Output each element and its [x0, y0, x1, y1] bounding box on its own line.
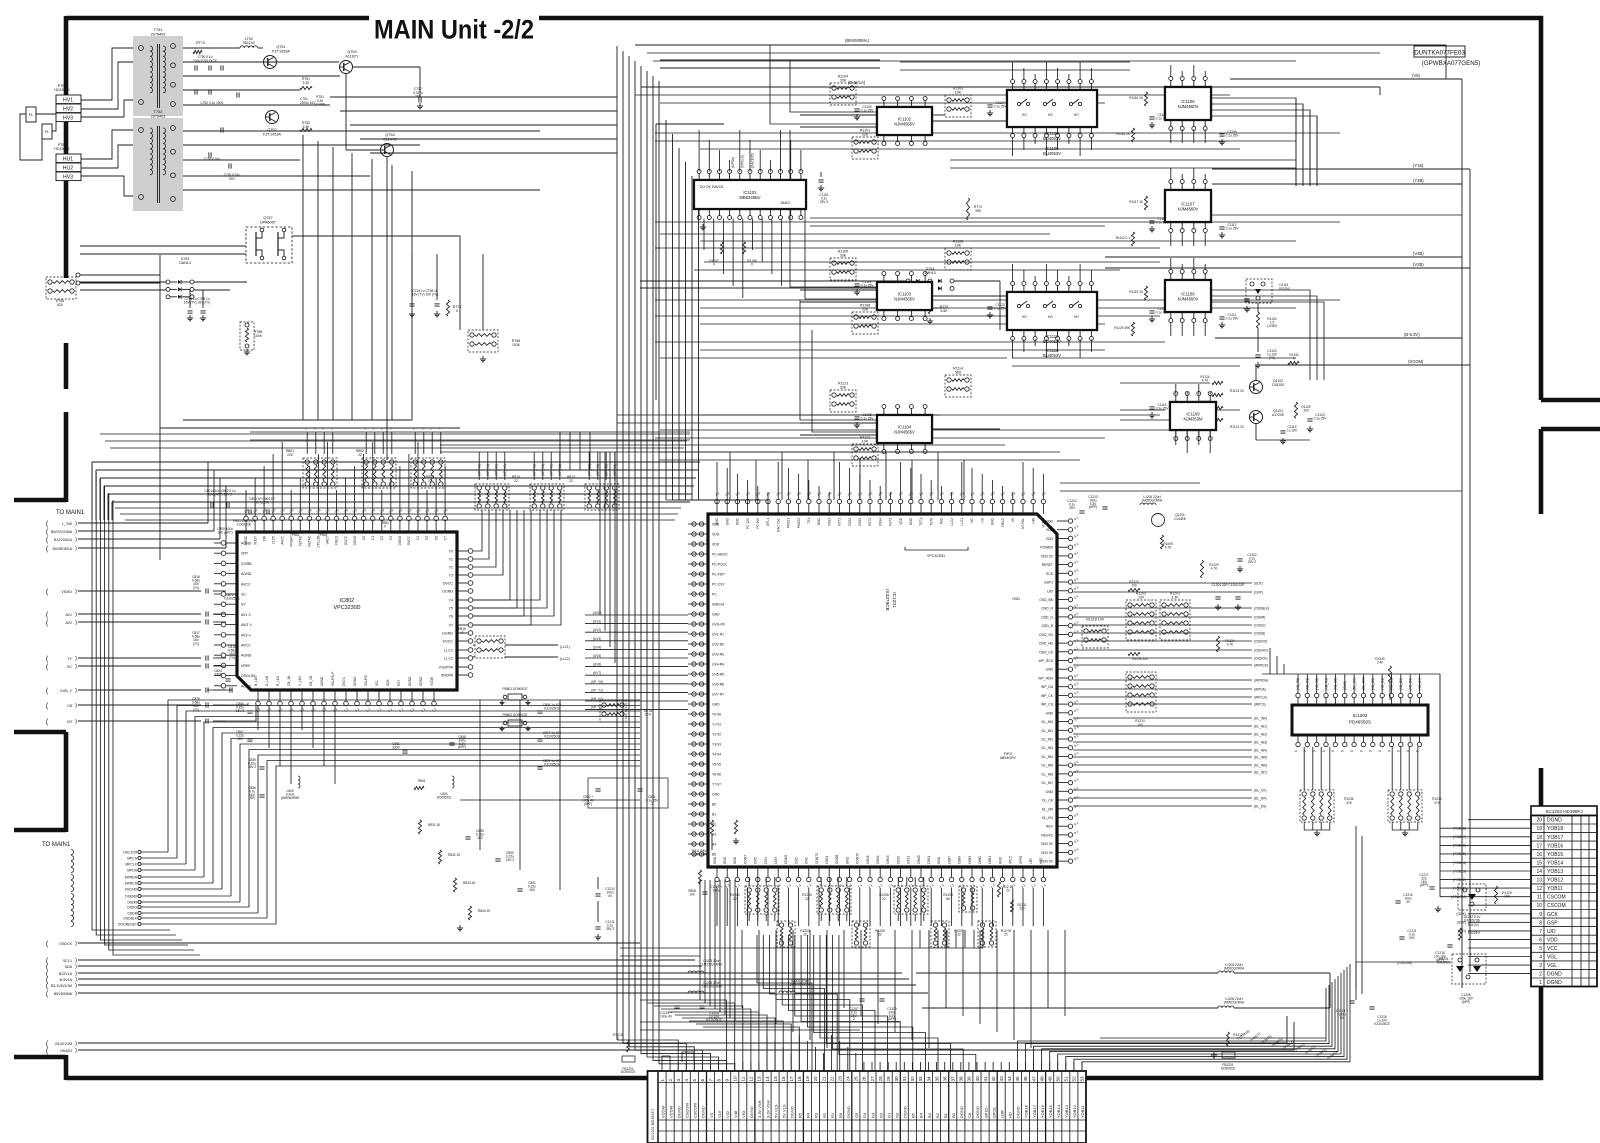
svg-text:GND: GND [1045, 711, 1053, 715]
svg-text:DGND: DGND [353, 676, 357, 686]
svg-text:Y7: Y7 [449, 624, 453, 628]
svg-text:R1112 0.1: R1112 0.1 [1116, 236, 1130, 240]
svg-text:YOB11: YOB11 [1547, 886, 1563, 892]
svg-text:40: 40 [975, 1076, 980, 1082]
svg-text:HO: HO [1022, 113, 1027, 117]
svg-text:16V (TV) 16V (TV): 16V (TV) 16V (TV) [184, 301, 210, 305]
svg-text:B3: B3 [927, 1112, 932, 1118]
svg-text:R4: R4 [806, 1112, 811, 1118]
svg-text:33: 33 [918, 1076, 923, 1082]
svg-text:FZT1053A: FZT1053A [263, 132, 281, 136]
svg-text:UV4-R4: UV4-R4 [712, 663, 724, 667]
svg-text:GND: GND [715, 517, 719, 525]
svg-text:(UV1): (UV1) [593, 620, 601, 624]
svg-text:DVCC: DVCC [407, 535, 411, 545]
svg-text:R1218 100: R1218 100 [1086, 618, 1104, 622]
svg-text:DO900CE: DO900CE [1221, 1066, 1236, 1070]
svg-text:VDD: VDD [899, 517, 903, 524]
svg-text:14: 14 [765, 1076, 770, 1082]
svg-text:OSDG: OSDG [127, 906, 137, 910]
svg-text:): ) [75, 719, 77, 725]
svg-text:R1228 0: R1228 0 [1468, 931, 1480, 935]
svg-text:HS: HS [980, 518, 984, 522]
svg-text:B14V1OM: B14V1OM [55, 1042, 72, 1046]
svg-text:VDD 5V: VDD 5V [1041, 554, 1054, 558]
svg-text:UV1-R1: UV1-R1 [712, 633, 724, 637]
svg-text:5.6K: 5.6K [941, 309, 949, 313]
svg-text:(B-9V1A): (B-9V1A) [848, 80, 866, 85]
svg-text:PD46550S: PD46550S [1349, 719, 1371, 724]
svg-text:Y2-92: Y2-92 [712, 733, 721, 737]
svg-text:DGND: DGND [846, 1106, 851, 1118]
svg-text:UV2-R2: UV2-R2 [712, 643, 724, 647]
svg-text:WP_DA: WP_DA [1041, 685, 1054, 689]
svg-text:R861: R861 [418, 779, 426, 783]
svg-text:CPLL38: CPLL38 [317, 536, 321, 548]
svg-text:AVCC: AVCC [280, 535, 284, 544]
svg-text:SC: SC [67, 665, 72, 669]
svg-text:C8M4: C8M4 [876, 855, 880, 864]
svg-text:): ) [75, 589, 77, 595]
svg-text:100: 100 [1303, 408, 1309, 412]
svg-text:9: 9 [1539, 912, 1542, 918]
svg-text:3: 3 [676, 1078, 681, 1081]
svg-text:(UV2): (UV2) [593, 628, 601, 632]
svg-text:VST2: VST2 [868, 518, 872, 526]
svg-text:16: 16 [1536, 852, 1542, 858]
svg-text:C8B2: C8B2 [978, 856, 982, 864]
svg-text:DGND: DGND [442, 590, 453, 594]
svg-text:COM2: COM2 [784, 855, 788, 864]
svg-text:DL_IN4: DL_IN4 [1042, 755, 1054, 759]
svg-text:(VP_Y3): (VP_Y3) [591, 706, 603, 710]
svg-text:WP_CK: WP_CK [1041, 694, 1054, 698]
svg-text:22: 22 [882, 897, 886, 901]
svg-text:DAN13: DAN13 [179, 261, 191, 265]
svg-text:GND: GND [909, 517, 913, 525]
svg-text:SCL: SCL [375, 680, 379, 686]
svg-text:VDD 5V: VDD 5V [1041, 842, 1054, 846]
svg-text:B4: B4 [919, 1112, 924, 1118]
svg-text:(SCOM): (SCOM) [1408, 359, 1424, 364]
svg-text:): ) [75, 521, 77, 527]
svg-text:OSD_BK: OSD_BK [1039, 598, 1053, 602]
svg-text:32: 32 [910, 1076, 915, 1082]
svg-text:DOORESET: DOORESET [118, 923, 137, 927]
svg-text:Y1: Y1 [449, 558, 453, 562]
svg-text:DGND: DGND [676, 1106, 681, 1118]
svg-text:47K: 47K [1346, 801, 1353, 805]
svg-text:4: 4 [1539, 955, 1542, 961]
svg-text:KZ1025CE: KZ1025CE [544, 734, 560, 738]
svg-text:(M05OU2R9H: (M05OU2R9H [1142, 499, 1163, 503]
svg-text:31: 31 [902, 1076, 907, 1082]
svg-text:(SCK): (SCK) [1254, 581, 1263, 585]
svg-text:7: 7 [1539, 929, 1542, 935]
svg-text:YOB17: YOB17 [1547, 835, 1563, 841]
svg-text:(WPRCS): (WPRCS) [1254, 663, 1268, 667]
svg-text:C8B4: C8B4 [958, 856, 962, 864]
svg-text:5V VLS: 5V VLS [773, 1104, 778, 1118]
svg-text:21: 21 [821, 1076, 826, 1082]
svg-text:(OSDG): (OSDG) [1254, 623, 1266, 627]
svg-text:R1119 1K: R1119 1K [1129, 290, 1144, 294]
svg-text:V0: V0 [709, 1112, 714, 1118]
svg-text:0: 0 [384, 525, 386, 529]
svg-text:TST1: TST1 [919, 518, 923, 526]
svg-text:V48: V48 [733, 1110, 738, 1118]
svg-text:C4: C4 [416, 536, 420, 540]
svg-text:): ) [75, 529, 77, 535]
svg-text:T752: T752 [154, 110, 163, 114]
svg-text:OSD_B: OSD_B [1042, 624, 1054, 628]
svg-text:DL_IN6: DL_IN6 [1042, 772, 1054, 776]
svg-text:(DL_IN2): (DL_IN2) [1254, 732, 1267, 736]
svg-text:U/D: U/D [1547, 929, 1556, 935]
svg-text:13: 13 [1536, 878, 1542, 884]
svg-text:SMEGA: SMEGA [712, 603, 725, 607]
svg-text:VDD 5V: VDD 5V [1041, 851, 1054, 855]
svg-text:IC1202: IC1202 [1353, 713, 1368, 718]
svg-text:4B4DJ: 4B4DJ [780, 201, 790, 205]
svg-text:YOB11: YOB11 [1080, 1105, 1085, 1118]
svg-text:DL_IN0: DL_IN0 [1042, 720, 1054, 724]
svg-text:PM221: PM221 [787, 518, 791, 528]
svg-text:220: 220 [1019, 907, 1025, 911]
svg-text:Y4: Y4 [449, 599, 453, 603]
svg-text:VGL: VGL [1547, 963, 1557, 969]
svg-text:G0: G0 [894, 1112, 899, 1118]
svg-text:DO055CE: DO055CE [437, 795, 452, 799]
svg-text:52: 52 [1072, 1076, 1077, 1082]
svg-text:30: 30 [894, 1076, 899, 1082]
svg-text:COO120E: COO120E [237, 523, 252, 527]
svg-text:DGND: DGND [749, 1106, 754, 1118]
svg-text:L8R: L8R [1029, 857, 1033, 864]
svg-text:Y3: Y3 [449, 574, 453, 578]
svg-text:SP1O: SP1O [983, 1107, 988, 1118]
svg-text:): ) [75, 991, 77, 997]
svg-text:0: 0 [1397, 750, 1401, 752]
svg-text:UPA606T: UPA606T [260, 220, 277, 224]
svg-text:NJM4560V: NJM4560V [1178, 296, 1199, 301]
svg-text:WP_RDH: WP_RDH [1038, 677, 1053, 681]
svg-text:): ) [75, 688, 77, 694]
svg-text:2.4K: 2.4K [1377, 661, 1384, 665]
svg-text:IC802: IC802 [340, 598, 354, 604]
svg-text:MPDA: MPDA [127, 869, 138, 873]
svg-text:DGND: DGND [442, 632, 453, 636]
svg-text:NJM4565V: NJM4565V [894, 296, 915, 301]
svg-text:QT54: QT54 [385, 133, 395, 137]
svg-text:1: 1 [660, 1079, 665, 1082]
svg-text:UV7-R7: UV7-R7 [712, 693, 724, 697]
svg-text:DO OK DAVCS: DO OK DAVCS [700, 185, 724, 189]
svg-text:TO MAIN1: TO MAIN1 [56, 510, 85, 516]
svg-text:22: 22 [1004, 933, 1008, 937]
svg-text:TST0: TST0 [929, 518, 933, 526]
svg-text:0.1u 25V: 0.1u 25V [1226, 226, 1240, 230]
svg-text:GND: GND [725, 517, 729, 525]
svg-text:HV2: HV2 [63, 107, 73, 113]
svg-text:3.3V VSH: 3.3V VSH [765, 1100, 770, 1118]
svg-text:(V2B): (V2B) [1413, 262, 1424, 267]
svg-text:GND: GND [736, 517, 740, 525]
svg-text:): ) [75, 656, 77, 662]
svg-text:C8M5: C8M5 [866, 855, 870, 864]
svg-text:100u 4V: 100u 4V [660, 1015, 673, 1019]
svg-text:C5: C5 [425, 536, 429, 540]
svg-text:Q752: Q752 [267, 128, 276, 132]
svg-text:49: 49 [1047, 1076, 1052, 1082]
svg-text:VDD: VDD [712, 543, 720, 547]
svg-text:CLV5: CLV5 [271, 536, 275, 544]
svg-text:B0: B0 [951, 1112, 956, 1118]
svg-text:): ) [75, 537, 77, 543]
svg-text:Q757: Q757 [263, 216, 272, 220]
svg-text:OSDR: OSDR [127, 901, 137, 905]
svg-text:CONB: CONB [835, 855, 839, 864]
svg-text:OSDCK: OSDCK [59, 942, 72, 946]
svg-text:0: 0 [713, 263, 715, 267]
svg-text:0: 0 [1369, 750, 1373, 752]
svg-text:C7: C7 [443, 536, 447, 540]
svg-text:CSCOM: CSCOM [685, 1103, 690, 1118]
svg-text:VSMO: VSMO [61, 590, 72, 594]
svg-text:SNDPA: SNDPA [441, 674, 454, 678]
svg-text:R3: R3 [814, 1112, 819, 1118]
svg-text:DGND: DGND [1547, 980, 1562, 986]
svg-text:CONT: CONT [743, 855, 747, 864]
svg-text:DO900CE: DO900CE [621, 1070, 636, 1074]
svg-text:): ) [75, 1048, 77, 1054]
svg-text:8: 8 [716, 1079, 721, 1082]
svg-text:A1162Y: A1162Y [345, 54, 359, 58]
svg-text:HD155FJ: HD155FJ [54, 147, 69, 151]
svg-text:OSD_CK: OSD_CK [1039, 650, 1054, 654]
svg-text:SY: SY [241, 603, 246, 607]
svg-text:GND: GND [937, 856, 941, 864]
svg-text:2: 2 [651, 802, 653, 806]
svg-text:22: 22 [514, 479, 518, 483]
svg-text:(UV4): (UV4) [593, 645, 601, 649]
svg-text:DL_DR: DL_DR [1042, 807, 1054, 811]
svg-text:POWER: POWER [1040, 546, 1053, 550]
svg-text:VREF: VREF [241, 664, 251, 668]
svg-text:D2SBL: D2SBL [241, 562, 252, 566]
svg-text:17: 17 [789, 1076, 794, 1082]
svg-text:CB_1N: CB_1N [287, 675, 291, 686]
svg-text:19: 19 [805, 1076, 810, 1082]
svg-text:Q751: Q751 [276, 45, 285, 49]
svg-text:0.1u 25V: 0.1u 25V [1226, 133, 1240, 137]
svg-text:YOB13: YOB13 [1547, 869, 1563, 875]
svg-text:C8S2: C8S2 [896, 856, 900, 864]
svg-text:(TV): (TV) [193, 642, 199, 646]
svg-text:42: 42 [991, 1076, 996, 1082]
svg-text:CM5: CM5 [754, 857, 758, 864]
svg-text:0: 0 [1415, 750, 1419, 752]
svg-text:A1720S: A1720S [1272, 413, 1285, 417]
svg-text:VCOM: VCOM [668, 1106, 673, 1118]
svg-text:R0: R0 [838, 1112, 843, 1118]
svg-text:18: 18 [1536, 835, 1542, 841]
svg-text:(GPWBXA077GEN5): (GPWBXA077GEN5) [1422, 60, 1480, 67]
svg-text:Y6-96: Y6-96 [712, 773, 721, 777]
svg-text:VSUP2LP: VSUP2LP [331, 672, 335, 686]
svg-text:OSD_HD: OSD_HD [1039, 642, 1054, 646]
svg-text:C8N1: C8N1 [825, 856, 829, 864]
svg-text:5: 5 [1539, 946, 1542, 952]
svg-text:R834 1K: R834 1K [478, 909, 491, 913]
svg-text:DGND: DGND [353, 535, 357, 545]
svg-text:YOB12: YOB12 [1547, 878, 1563, 884]
svg-text:3: 3 [1539, 963, 1542, 969]
svg-text:RT73: RT73 [196, 41, 205, 45]
svg-text:DUNTKA077FE03: DUNTKA077FE03 [1414, 50, 1465, 57]
svg-text:YOB15: YOB15 [1048, 1104, 1053, 1118]
svg-text:): ) [75, 703, 77, 709]
svg-text:C755 0.01u: C755 0.01u [204, 157, 221, 161]
svg-text:HU1: HU1 [63, 157, 73, 163]
svg-text:MEMORY: MEMORY [1000, 756, 1017, 760]
svg-text:B2: B2 [935, 1112, 940, 1118]
svg-text:R1123 33: R1123 33 [1230, 389, 1244, 393]
svg-text:VS: VS [1011, 518, 1015, 522]
svg-text:12: 12 [749, 1076, 754, 1082]
svg-text:10: 10 [732, 1076, 737, 1082]
svg-text:0: 0 [617, 1036, 619, 1040]
svg-text:NJM4560V: NJM4560V [1178, 104, 1199, 109]
svg-text:WP_CS: WP_CS [1041, 703, 1054, 707]
svg-text:2: 2 [853, 1017, 855, 1021]
svg-text:TO MAIN1: TO MAIN1 [42, 842, 71, 848]
svg-text:G3: G3 [870, 1112, 875, 1118]
svg-text:B5: B5 [911, 1112, 916, 1118]
svg-text:OSD_G: OSD_G [1041, 615, 1053, 619]
svg-text:C1: C1 [371, 536, 375, 540]
svg-text:DAC1O5: DAC1O5 [123, 851, 137, 855]
svg-text:DL_IN7: DL_IN7 [1042, 781, 1054, 785]
svg-text:DSCHD: DSCHD [125, 888, 138, 892]
svg-text:BU4053V: BU4053V [1043, 353, 1061, 358]
svg-text:YOB13: YOB13 [1064, 1104, 1069, 1118]
svg-text:10K: 10K [955, 244, 962, 248]
svg-text:R1: R1 [830, 1112, 835, 1118]
svg-text:10K: 10K [955, 91, 962, 95]
svg-text:CM3: CM3 [774, 857, 778, 864]
svg-text:(OSDHD): (OSDHD) [1254, 648, 1268, 652]
svg-text:(DL_IN6): (DL_IN6) [1254, 763, 1267, 767]
svg-text:MPRCS: MPRCS [125, 882, 138, 886]
svg-text:(DL_DR): (DL_DR) [1254, 796, 1267, 800]
svg-text:Y0-90: Y0-90 [712, 713, 721, 717]
svg-text:YOB17: YOB17 [1032, 1104, 1037, 1118]
svg-text:(V4B): (V4B) [1413, 251, 1424, 256]
svg-text:27: 27 [870, 1076, 875, 1082]
svg-text:FIELD: FIELD [335, 535, 339, 545]
svg-text:HD155FJ: HD155FJ [54, 88, 69, 92]
svg-text:2: 2 [668, 1078, 673, 1081]
svg-text:16V 2: 16V 2 [506, 858, 515, 862]
svg-text:(M05OU2R9H: (M05OU2R9H [1224, 1000, 1245, 1004]
svg-text:(LLC2): (LLC2) [560, 657, 570, 661]
svg-text:(WPCLK): (WPCLK) [1254, 695, 1267, 699]
svg-text:AGND: AGND [241, 572, 252, 576]
svg-text:3W4SH5GA: 3W4SH5GA [52, 547, 72, 551]
svg-text:3.3V VSH: 3.3V VSH [757, 1100, 762, 1118]
svg-text:OSDB: OSDB [127, 912, 137, 916]
svg-text:L_SW: L_SW [62, 522, 72, 526]
svg-text:NJM4565V: NJM4565V [894, 121, 915, 126]
svg-text:(WPRDA): (WPRDA) [1254, 678, 1268, 682]
svg-text:NJM353M: NJM353M [1183, 416, 1203, 421]
svg-text:YOB15: YOB15 [1547, 852, 1563, 858]
svg-text:(OSDVD): (OSDVD) [1254, 639, 1267, 643]
svg-text:UV5-R5: UV5-R5 [712, 673, 724, 677]
svg-text:(DAC1O5): (DAC1O5) [750, 153, 754, 168]
svg-text:18: 18 [797, 1076, 802, 1082]
svg-text:28: 28 [878, 1076, 883, 1082]
svg-text:(APP): (APP) [1089, 505, 1098, 509]
svg-text:2076403: 2076403 [151, 32, 166, 36]
svg-text:(1/4W): (1/4W) [315, 103, 325, 107]
svg-text:VACT: VACT [326, 536, 330, 544]
svg-text:DGND: DGND [398, 535, 402, 545]
svg-text:SCL1: SCL1 [63, 959, 72, 963]
svg-text:IX3379CE: IX3379CE [884, 589, 890, 611]
svg-text:VSUPPA: VSUPPA [439, 666, 454, 670]
svg-text:SC1201 ND481FJ: SC1201 ND481FJ [651, 1109, 655, 1140]
svg-text:0: 0 [1341, 750, 1345, 752]
svg-text:0: 0 [1293, 356, 1295, 360]
svg-text:VCC: VCC [1547, 946, 1558, 952]
svg-text:0: 0 [1294, 750, 1298, 752]
svg-text:(Y2B): (Y2B) [1413, 178, 1424, 183]
svg-text:C8B7: C8B7 [947, 856, 951, 864]
svg-text:0511X2: 0511X2 [243, 41, 255, 45]
svg-text:B5: B5 [712, 853, 716, 857]
svg-text:B0: B0 [712, 803, 716, 807]
svg-text:GND: GND [845, 856, 849, 864]
svg-text:YOB18: YOB18 [1024, 1104, 1029, 1118]
svg-text:0: 0 [1387, 750, 1391, 752]
svg-text:39K: 39K [975, 209, 982, 213]
svg-text:25V 2: 25V 2 [820, 200, 829, 204]
svg-text:25V 2: 25V 2 [1248, 560, 1257, 564]
svg-text:NJM4560V: NJM4560V [1178, 206, 1199, 211]
svg-text:G1: G1 [886, 1112, 891, 1118]
svg-text:(NP): (NP) [249, 796, 256, 800]
svg-text:GND: GND [1045, 790, 1053, 794]
svg-text:VDD: VDD [1046, 537, 1054, 541]
svg-text:AVCC: AVCC [241, 582, 251, 586]
svg-text:OSD_R: OSD_R [1041, 607, 1053, 611]
svg-text:22: 22 [569, 479, 573, 483]
svg-text:8: 8 [1539, 920, 1542, 926]
svg-text:VPC3230D: VPC3230D [927, 554, 945, 558]
svg-text:C8M3: C8M3 [886, 855, 890, 864]
svg-text:51: 51 [1064, 1076, 1069, 1082]
svg-text:VST1: VST1 [838, 518, 842, 526]
svg-text:DL_IN3: DL_IN3 [1042, 746, 1054, 750]
svg-text:CSCOM: CSCOM [693, 1103, 698, 1118]
svg-text:YOB18: YOB18 [1547, 826, 1563, 832]
svg-text:GSP1: GSP1 [1044, 581, 1053, 585]
svg-text:0: 0 [1350, 750, 1354, 752]
svg-text:NT-PAL: NT-PAL [1021, 518, 1025, 529]
svg-text:B3: B3 [712, 833, 716, 837]
